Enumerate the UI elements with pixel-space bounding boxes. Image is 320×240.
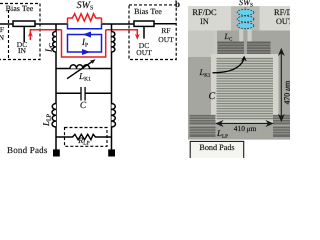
label SW_S (micrograph): [233, 0, 259, 8]
inductor L_C right (bumps bulge right): [112, 32, 115, 53]
label DC OUT port: [134, 41, 154, 50]
410um dimension arrow: [217, 121, 273, 125]
right rail: [111, 24, 113, 150]
RF OUT wire: [154, 23, 176, 25]
label switch SW_S: [68, 0, 102, 12]
L_K1 rung wire: [56, 68, 112, 70]
SW_S box red upper sides: [68, 18, 102, 24]
label C (micrograph): [209, 91, 216, 102]
inductor L_LP left: [52, 104, 56, 128]
SW_S box blue lower sides and bottom: [68, 24, 102, 29]
inductor L_LP right: [112, 104, 116, 128]
red DC-OUT wire with down arrow: [106, 30, 138, 38]
main wire left segment: [35, 23, 68, 25]
470um dimension arrow: [279, 49, 283, 121]
L_K1 coil bumps: [70, 65, 90, 69]
label DC IN port: [12, 40, 32, 49]
left bias tee dashed box: [0, 4, 40, 60]
pad gap slightly lighter: [231, 6, 260, 30]
bias tee box left: [13, 21, 35, 26]
label RF/DC IN pad: [187, 8, 222, 17]
label RF OUT port: [156, 26, 176, 35]
label Bond Pads (left panel): [7, 145, 53, 155]
red persistent loop: [62, 30, 106, 57]
bond pad square right: [108, 149, 115, 156]
I_P loop arrow top (left): [83, 32, 92, 38]
L_LP striped block bottom-right: [273, 115, 290, 137]
label L_C (micrograph): [225, 32, 233, 43]
label inductor L_K1: [74, 71, 96, 83]
R_LP rung wire + zigzag: [56, 134, 112, 139]
DC stub right: [143, 26, 145, 38]
inductor L_C left (bumps bulge left): [53, 32, 56, 53]
label 410 um dimension: [228, 124, 262, 133]
capacitor C plates: [80, 87, 82, 101]
switch feed bar right: [248, 30, 252, 43]
light frame around meander: [211, 54, 279, 123]
RF IN wire: [0, 23, 13, 25]
panel label b: [175, 0, 180, 9]
red DC-IN arrowhead: [28, 31, 33, 37]
left rail: [55, 24, 57, 150]
main wire right segment: [102, 23, 135, 25]
label Bias Tee (left): [4, 4, 35, 13]
DC stub left: [23, 26, 25, 42]
blue I_P loop: [68, 35, 102, 53]
label capacitor C: [74, 101, 92, 111]
L_K1 curved pointer arrow: [213, 56, 247, 73]
L_K1 meander striped block: [217, 57, 274, 120]
L_C dark coil block right: [247, 42, 271, 55]
L_K1 variable arrow: [67, 61, 93, 79]
label resistor R_LP: [73, 136, 95, 147]
light bar left of L_C block: [214, 31, 218, 55]
switch feed bar left: [239, 30, 243, 43]
left light column under pad: [188, 31, 215, 58]
SW_S switch box: white body: [68, 18, 102, 29]
label Bias Tee (right): [132, 7, 164, 16]
red DC-IN wire with up arrow: [30, 30, 61, 40]
R_LP dashed box: [65, 128, 108, 147]
label Bond Pads (micrograph): [191, 143, 243, 152]
L_C dark coil block left: [218, 42, 245, 55]
L_LP striped block bottom-left lower: [190, 127, 216, 138]
bond pad square left: [53, 149, 60, 156]
label L_LP (micrograph): [217, 128, 228, 140]
SW_S resistor zigzag top edge (red): [68, 14, 102, 21]
label L_K1 (micrograph): [200, 67, 211, 79]
top bond pad band left (RF/DC IN pad): [188, 6, 232, 30]
I_P loop arrow bottom (right): [82, 49, 91, 55]
bias tee box right: [134, 21, 154, 26]
top bond pad band right (RF/DC OUT pad): [260, 6, 291, 30]
Bond Pads label box (panel b): [190, 141, 244, 159]
capacitor C rung wires: [56, 92, 81, 94]
label persistent current I_P: [74, 38, 96, 49]
chip micrograph background: [188, 6, 290, 139]
label RF IN port (cut at edge): [0, 25, 4, 34]
right bias tee dashed box: [129, 5, 176, 60]
red DC-OUT arrowhead: [135, 34, 140, 40]
label RF/DC OUT pad (cut at edge): [274, 8, 307, 17]
L_LP striped block bottom-left upper: [190, 115, 216, 125]
switch SW_S cyan ellipses: [245, 7, 247, 30]
